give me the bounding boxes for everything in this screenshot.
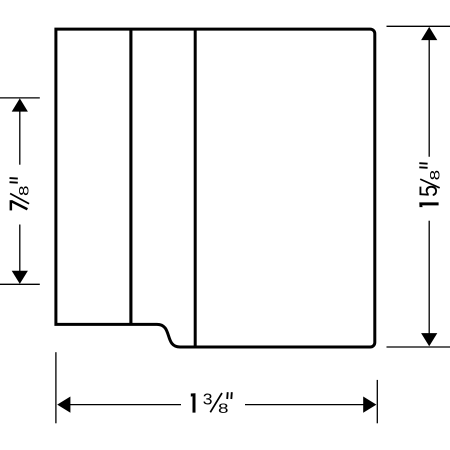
svg-text:8: 8 xyxy=(218,400,229,416)
svg-text:8: 8 xyxy=(427,170,443,181)
svg-text:3: 3 xyxy=(203,390,213,408)
svg-text:8: 8 xyxy=(16,185,32,196)
